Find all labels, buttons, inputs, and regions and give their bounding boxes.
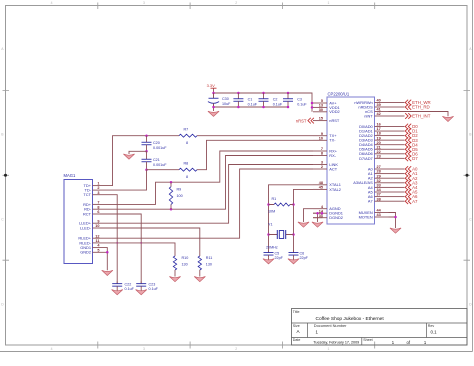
port D7 bbox=[405, 156, 418, 162]
svg-text:TX-: TX- bbox=[329, 138, 336, 143]
junction TD+ at C20 bbox=[145, 134, 148, 137]
svg-text:10: 10 bbox=[319, 136, 323, 140]
svg-text:3: 3 bbox=[97, 191, 99, 195]
svg-text:0.1uF: 0.1uF bbox=[125, 287, 135, 291]
resistor R7 bbox=[179, 134, 197, 137]
svg-text:C21: C21 bbox=[153, 158, 160, 162]
svg-text:40: 40 bbox=[377, 99, 381, 103]
svg-text:LLED-: LLED- bbox=[80, 225, 92, 230]
svg-text:0.1uF: 0.1uF bbox=[149, 287, 159, 291]
capacitor C30 10uF bbox=[208, 93, 231, 106]
svg-text:GND2: GND2 bbox=[80, 250, 91, 255]
junction top rail at C2 bbox=[262, 92, 265, 95]
junction C23 at RLED- bbox=[140, 242, 142, 244]
capacitor C23 0.1uF bbox=[136, 281, 158, 291]
wire RD- to RX- bbox=[100, 156, 313, 210]
svg-text:130: 130 bbox=[206, 262, 212, 266]
svg-text:nINT: nINT bbox=[364, 113, 373, 118]
wire XTAL1 net bbox=[269, 185, 314, 253]
MAG1 pins with numbers bbox=[78, 182, 100, 255]
capacitor C6 22pF bbox=[289, 250, 309, 260]
R10 labels bbox=[182, 256, 189, 267]
svg-text:A7: A7 bbox=[368, 199, 373, 204]
wire 3.3V top rail bbox=[214, 93, 314, 112]
junction VDD1 pin bbox=[311, 106, 314, 109]
svg-text:22pF: 22pF bbox=[275, 256, 284, 260]
wire RCT to C23 bbox=[100, 214, 141, 283]
R11 labels bbox=[206, 256, 213, 267]
ground arrow C6 bbox=[288, 257, 299, 264]
capacitor C22 0.1uF bbox=[112, 281, 134, 291]
crystal Y1 20MHz bbox=[266, 222, 294, 249]
wire RLED- to R10 bbox=[100, 243, 175, 256]
port A3 bbox=[405, 180, 418, 186]
svg-text:11: 11 bbox=[95, 239, 99, 243]
svg-text:C30: C30 bbox=[222, 97, 229, 101]
port D3 bbox=[405, 137, 418, 143]
junction R9 top bbox=[170, 181, 173, 184]
svg-text:42: 42 bbox=[377, 112, 381, 116]
svg-text:2: 2 bbox=[235, 1, 237, 5]
wire AGND to ground bbox=[304, 209, 314, 222]
wire TD- to R8 to TX- bbox=[100, 140, 313, 190]
wire decoupling bottom rail bbox=[214, 93, 289, 111]
capacitor C21 0.001uF bbox=[142, 151, 168, 169]
svg-text:41: 41 bbox=[377, 108, 381, 112]
svg-text:19: 19 bbox=[377, 136, 381, 140]
svg-text:18: 18 bbox=[377, 132, 381, 136]
ground arrow C22 bbox=[112, 288, 123, 294]
svg-text:9: 9 bbox=[321, 132, 323, 136]
svg-text:R7: R7 bbox=[184, 128, 189, 132]
svg-text:ETH_RD: ETH_RD bbox=[412, 105, 430, 110]
svg-text:8: 8 bbox=[186, 141, 188, 145]
svg-text:17: 17 bbox=[377, 127, 381, 131]
svg-text:R8: R8 bbox=[184, 162, 189, 166]
ground arrow R10 bbox=[169, 277, 180, 282]
svg-text:7: 7 bbox=[97, 201, 99, 205]
svg-text:Tuesday, February 17, 2009: Tuesday, February 17, 2009 bbox=[313, 341, 359, 345]
R9 labels bbox=[177, 187, 183, 198]
port A1 bbox=[405, 171, 418, 177]
power symbol 3.3V bbox=[207, 83, 217, 93]
junction bottom rail at C3 bbox=[287, 106, 290, 109]
svg-text:RCT: RCT bbox=[83, 211, 92, 216]
svg-text:8: 8 bbox=[321, 152, 323, 156]
ground under C30 bbox=[208, 111, 219, 116]
svg-text:TCT: TCT bbox=[83, 192, 91, 197]
svg-text:ETH_INT: ETH_INT bbox=[412, 114, 431, 119]
wire DGND to ground bbox=[317, 213, 319, 222]
junction AV+ pin bbox=[311, 102, 314, 105]
junction GND1/GND2 bbox=[106, 251, 109, 254]
svg-text:30: 30 bbox=[319, 108, 323, 112]
port D5 bbox=[405, 146, 418, 152]
resistor R1 bbox=[274, 203, 290, 206]
wire GND1 GND2 bbox=[100, 248, 107, 271]
port D6 bbox=[405, 151, 418, 157]
svg-text:MAG1: MAG1 bbox=[64, 173, 77, 178]
wire RLED+ to ACT bbox=[100, 169, 313, 238]
svg-text:A7: A7 bbox=[412, 199, 418, 204]
R8 labels bbox=[184, 162, 189, 179]
svg-text:22: 22 bbox=[377, 150, 381, 154]
title block bbox=[292, 309, 468, 346]
wire RD+ to RX+ bbox=[100, 151, 313, 204]
junction R9 bottom bbox=[170, 208, 173, 211]
zone boundary ticks top and bottom bbox=[98, 3, 375, 349]
R7 labels bbox=[184, 128, 189, 145]
port A7 bbox=[405, 198, 418, 204]
ground arrow DGND bbox=[312, 222, 323, 227]
svg-text:0.1uF: 0.1uF bbox=[297, 102, 307, 106]
wire nWR to port bbox=[389, 102, 405, 104]
wire DGND1 bbox=[313, 212, 322, 214]
svg-text:28: 28 bbox=[377, 170, 381, 174]
wire nRD to port bbox=[389, 106, 405, 108]
svg-text:13: 13 bbox=[319, 104, 323, 108]
svg-text:33: 33 bbox=[377, 184, 381, 188]
svg-text:10: 10 bbox=[95, 224, 99, 228]
junction bottom rail at C2 bbox=[262, 106, 265, 109]
svg-text:C2: C2 bbox=[273, 98, 278, 102]
svg-text:0.1uF: 0.1uF bbox=[273, 102, 283, 106]
svg-text:Size: Size bbox=[293, 324, 300, 328]
resistor R8 bbox=[179, 168, 197, 171]
port A6 bbox=[405, 194, 418, 200]
capacitor C20 0.001uF bbox=[142, 136, 168, 152]
svg-text:2: 2 bbox=[321, 165, 323, 169]
svg-text:29: 29 bbox=[377, 174, 381, 178]
svg-text:7: 7 bbox=[321, 147, 323, 151]
svg-text:5: 5 bbox=[97, 248, 99, 252]
svg-text:8: 8 bbox=[186, 175, 188, 179]
port nRST bbox=[296, 118, 314, 124]
svg-text:21: 21 bbox=[377, 145, 381, 149]
svg-text:4: 4 bbox=[51, 347, 53, 351]
junction Y1 left bbox=[267, 233, 270, 236]
wire MUXEN MOTEN to ground bbox=[389, 213, 396, 229]
U1 left pins with numbers bbox=[313, 99, 343, 220]
junction C20 C21 ground node bbox=[145, 150, 148, 153]
svg-text:R9: R9 bbox=[177, 187, 182, 191]
svg-text:3: 3 bbox=[143, 1, 145, 5]
svg-text:27: 27 bbox=[377, 165, 381, 169]
svg-text:10M: 10M bbox=[268, 209, 275, 213]
port D4 bbox=[405, 142, 418, 148]
junction TD- at C21 bbox=[145, 168, 148, 171]
svg-text:Date: Date bbox=[293, 338, 301, 342]
outer border right line bbox=[472, 0, 474, 352]
wire LLED+ to LINK bbox=[100, 165, 313, 224]
zone boundary ticks left and right bbox=[3, 90, 471, 260]
capacitor C1 0.1uF bbox=[233, 93, 257, 107]
svg-text:C22: C22 bbox=[125, 283, 132, 287]
svg-text:3.3V: 3.3V bbox=[207, 83, 216, 88]
svg-text:1: 1 bbox=[97, 182, 99, 186]
wire R10 to ground bbox=[174, 270, 176, 277]
svg-text:C20: C20 bbox=[153, 141, 160, 145]
svg-text:37: 37 bbox=[377, 193, 381, 197]
svg-text:0.001uF: 0.001uF bbox=[153, 146, 167, 150]
junction Y1 right bbox=[292, 233, 295, 236]
wire LLED- to R11 bbox=[100, 228, 200, 256]
wire ground branch bbox=[129, 151, 147, 154]
sheet center marks bbox=[4, 174, 469, 177]
svg-text:2: 2 bbox=[235, 347, 237, 351]
port A4 bbox=[405, 185, 418, 191]
svg-text:3: 3 bbox=[321, 161, 323, 165]
wire R9 stubs bbox=[170, 182, 172, 209]
port A2 bbox=[405, 175, 418, 181]
svg-text:0.1: 0.1 bbox=[431, 329, 438, 334]
wire DGND2 bbox=[313, 213, 322, 218]
svg-text:6: 6 bbox=[97, 210, 99, 214]
junction R1 right bbox=[292, 203, 295, 206]
svg-text:Sheet: Sheet bbox=[363, 338, 372, 342]
svg-text:C6: C6 bbox=[300, 251, 305, 255]
svg-text:3: 3 bbox=[143, 347, 145, 351]
svg-text:R11: R11 bbox=[206, 256, 213, 260]
port ETH_INT bbox=[405, 113, 431, 119]
wires A0-A7 to ports bbox=[389, 169, 405, 201]
svg-text:2: 2 bbox=[97, 186, 99, 190]
svg-text:38: 38 bbox=[377, 197, 381, 201]
junction bottom rail at C1 bbox=[237, 106, 240, 109]
svg-text:Title: Title bbox=[293, 310, 300, 314]
junction top rail at C30 bbox=[212, 92, 215, 95]
ground arrow R11 bbox=[194, 277, 205, 282]
svg-text:C23: C23 bbox=[149, 283, 156, 287]
svg-text:20MHz: 20MHz bbox=[266, 245, 278, 249]
ground arrow mid filter bbox=[123, 154, 134, 159]
svg-text:0.1uF: 0.1uF bbox=[248, 102, 258, 106]
svg-text:ACT: ACT bbox=[329, 166, 337, 171]
svg-text:48: 48 bbox=[319, 181, 323, 185]
svg-text:5: 5 bbox=[321, 99, 323, 103]
svg-text:0.001uF: 0.001uF bbox=[153, 163, 167, 167]
svg-text:45: 45 bbox=[319, 186, 323, 190]
wire R1 stubs bbox=[269, 204, 294, 206]
junction DGND2 joins DGND1 bbox=[321, 212, 324, 215]
svg-text:nRST: nRST bbox=[296, 118, 307, 123]
svg-text:10uF: 10uF bbox=[222, 102, 231, 106]
wire XTAL2 net bbox=[294, 189, 314, 252]
svg-text:DGND2: DGND2 bbox=[329, 215, 343, 220]
capacitor C3 0.1uF bbox=[283, 93, 307, 107]
ground arrow C23 bbox=[136, 288, 147, 294]
capacitor C2 0.1uF bbox=[259, 93, 283, 107]
junction MUXEN/MOTEN bbox=[394, 216, 397, 219]
svg-text:MOTEN: MOTEN bbox=[359, 214, 373, 219]
svg-text:8: 8 bbox=[97, 205, 99, 209]
port A5 bbox=[405, 189, 418, 195]
svg-text:nRST: nRST bbox=[329, 118, 340, 123]
wire TD+ to R7 to TX+ bbox=[100, 136, 313, 186]
svg-text:100: 100 bbox=[177, 194, 183, 198]
svg-text:43: 43 bbox=[377, 213, 381, 217]
svg-text:R10: R10 bbox=[182, 256, 189, 260]
svg-text:Rev: Rev bbox=[428, 324, 435, 328]
ground arrow nCS bbox=[442, 116, 453, 121]
port ETH_RD bbox=[405, 104, 429, 110]
ground arrow MUXEN/MOTEN bbox=[390, 228, 401, 233]
port D2 bbox=[405, 133, 418, 139]
svg-text:Coffee Shop Jukebox - Ethernet: Coffee Shop Jukebox - Ethernet bbox=[316, 316, 385, 322]
port D0 bbox=[405, 124, 418, 130]
svg-text:1: 1 bbox=[328, 1, 330, 5]
wires D0-D7 to ports bbox=[389, 127, 405, 159]
junction bottom rail at C30 bbox=[212, 106, 215, 109]
svg-text:R1: R1 bbox=[272, 197, 277, 201]
svg-text:D7: D7 bbox=[412, 156, 418, 161]
svg-text:4: 4 bbox=[51, 1, 53, 5]
capacitor C5 22pF bbox=[264, 250, 284, 260]
svg-text:C3: C3 bbox=[297, 98, 302, 102]
junction C22 at RLED- bbox=[116, 242, 118, 244]
outer border bottom line bbox=[0, 351, 473, 353]
svg-text:C5: C5 bbox=[275, 251, 280, 255]
junction R1 left bbox=[267, 203, 270, 206]
svg-text:Document Number: Document Number bbox=[314, 323, 347, 328]
ground arrow AGND bbox=[298, 222, 309, 227]
wire nCS pulldown bbox=[389, 112, 449, 117]
transformer MAG1 body bbox=[64, 173, 93, 264]
svg-text:20: 20 bbox=[377, 141, 381, 145]
svg-text:C1: C1 bbox=[248, 98, 253, 102]
svg-text:9: 9 bbox=[97, 219, 99, 223]
U1 right pins with numbers bbox=[353, 99, 388, 220]
svg-text:22pF: 22pF bbox=[300, 256, 309, 260]
svg-text:1: 1 bbox=[328, 347, 330, 351]
junction top rail at C3 bbox=[287, 92, 290, 95]
integrated circuit U1 CP2200 body bbox=[327, 91, 375, 224]
svg-text:Y1: Y1 bbox=[268, 222, 273, 226]
svg-text:D7/AD7: D7/AD7 bbox=[359, 156, 373, 161]
wire TCT to C22 bbox=[100, 195, 117, 284]
resistor R9 bbox=[169, 187, 172, 205]
svg-text:15: 15 bbox=[319, 117, 323, 121]
svg-text:12: 12 bbox=[95, 234, 99, 238]
svg-text:VDD2: VDD2 bbox=[329, 109, 339, 114]
junction DGND ground tap bbox=[316, 212, 319, 215]
port D1 bbox=[405, 128, 418, 134]
svg-text:32: 32 bbox=[377, 179, 381, 183]
svg-text:XTAL2: XTAL2 bbox=[329, 187, 341, 192]
wire R11 to ground bbox=[199, 270, 201, 277]
resistor R10 bbox=[173, 256, 176, 270]
svg-text:CP2200/U1: CP2200/U1 bbox=[328, 91, 350, 96]
svg-text:39: 39 bbox=[377, 103, 381, 107]
R1 labels bbox=[268, 197, 276, 213]
port ETH_WR bbox=[405, 100, 430, 106]
svg-text:16: 16 bbox=[377, 123, 381, 127]
svg-text:23: 23 bbox=[377, 154, 381, 158]
junction top rail at C1 bbox=[237, 92, 240, 95]
wire nINT to port bbox=[389, 115, 405, 117]
port A0 bbox=[405, 166, 418, 172]
svg-text:130: 130 bbox=[182, 262, 188, 266]
svg-text:RX-: RX- bbox=[329, 153, 336, 158]
ground arrow MAG1 bbox=[102, 270, 113, 275]
resistor R11 bbox=[198, 256, 201, 270]
ground arrow C5 bbox=[263, 257, 274, 264]
